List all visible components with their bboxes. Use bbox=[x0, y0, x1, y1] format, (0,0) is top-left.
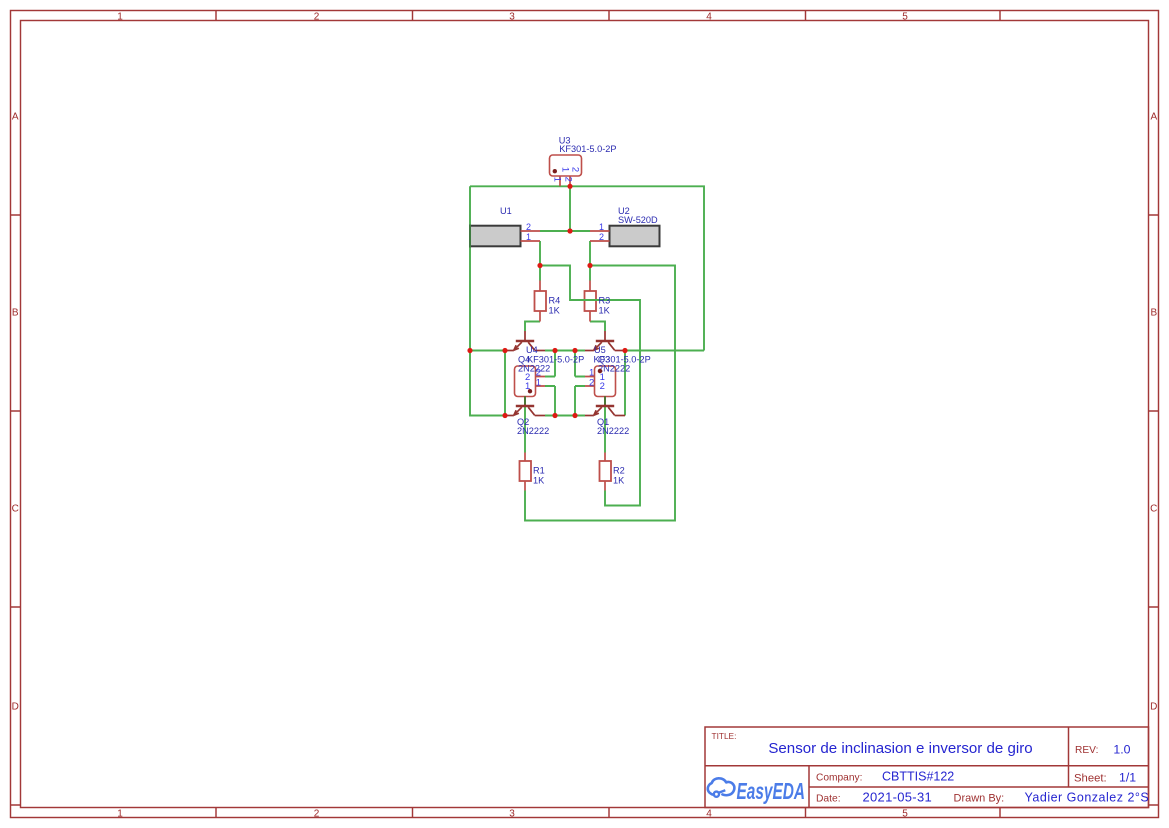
svg-text:2N2222: 2N2222 bbox=[518, 364, 550, 374]
label R3 value 1K bbox=[599, 305, 611, 315]
connector U2 SW-520D body bbox=[590, 226, 660, 247]
wire loop R3-node to R1 bottom bbox=[525, 266, 675, 521]
pin number 2 U3 (below box, rotated) bbox=[562, 177, 573, 182]
transistor Q2 bbox=[505, 396, 545, 416]
junction node at (505,415.5) Q2 emitter node bbox=[502, 413, 507, 418]
svg-text:REV:: REV: bbox=[1075, 745, 1098, 756]
svg-text:5: 5 bbox=[902, 809, 908, 820]
wire vertical Q4E-Q2E bbox=[504, 351, 506, 416]
label U3 bbox=[559, 136, 571, 146]
svg-text:2: 2 bbox=[526, 222, 531, 232]
wire overlap dark Q2 base lead bbox=[524, 396, 526, 404]
svg-text:Company:: Company: bbox=[816, 773, 862, 784]
wire node row U1-U2 bbox=[540, 230, 590, 232]
company value CBTTIS#122 bbox=[882, 770, 954, 784]
svg-text:TITLE:: TITLE: bbox=[712, 731, 737, 741]
wire crossing over R3 body bbox=[577, 299, 640, 301]
svg-text:2N2222: 2N2222 bbox=[517, 426, 549, 436]
svg-text:R2: R2 bbox=[613, 466, 625, 476]
svg-text:U4: U4 bbox=[526, 345, 538, 355]
svg-text:2: 2 bbox=[570, 167, 581, 172]
junction node at (540,265.5) R4 top node bbox=[537, 263, 542, 268]
ruler column numbers bottom bbox=[117, 809, 908, 820]
svg-text:4: 4 bbox=[706, 809, 712, 820]
title block frame bbox=[705, 727, 1149, 808]
ruler row letters left bbox=[12, 111, 19, 712]
svg-text:1: 1 bbox=[117, 809, 123, 820]
label Q3 bbox=[598, 355, 610, 365]
svg-text:R4: R4 bbox=[549, 296, 561, 306]
svg-text:SW-520D: SW-520D bbox=[618, 215, 658, 225]
pin name 1 U5 (in box) bbox=[600, 372, 605, 383]
label U2 bbox=[618, 206, 630, 216]
wire loop R4-node to R2 bottom bbox=[540, 266, 640, 506]
svg-text:KF301-5.0-2P: KF301-5.0-2P bbox=[559, 144, 616, 154]
svg-text:EasyEDA: EasyEDA bbox=[737, 778, 806, 804]
label R4 bbox=[549, 296, 561, 306]
pin name 2 U4 (in box) bbox=[525, 372, 530, 383]
label R1 bbox=[533, 466, 545, 476]
svg-text:A: A bbox=[12, 111, 19, 122]
resistor R3 bbox=[585, 281, 597, 322]
pin number 1 U4 bbox=[536, 378, 541, 389]
svg-text:Date:: Date: bbox=[816, 794, 841, 805]
pin number 1 U3 (below box, rotated) bbox=[551, 177, 562, 182]
label U1 bbox=[500, 206, 512, 216]
wire overlap dark Q1 base lead bbox=[604, 396, 606, 404]
title block label Company: bbox=[816, 773, 862, 784]
svg-text:1/1: 1/1 bbox=[1119, 771, 1136, 785]
wire vertical Q1 collector riser bbox=[624, 351, 626, 416]
svg-text:1: 1 bbox=[599, 222, 604, 232]
label Q4 value 2N2222 bbox=[518, 364, 550, 374]
sheet value 1/1 bbox=[1119, 771, 1136, 785]
resistor R2 bbox=[600, 453, 612, 491]
label U2 value SW-520D bbox=[618, 215, 658, 225]
svg-text:1: 1 bbox=[560, 167, 571, 172]
svg-text:Drawn By:: Drawn By: bbox=[954, 793, 1005, 805]
svg-text:C: C bbox=[1150, 503, 1157, 514]
connector U3 KF301-5.0-2P bbox=[550, 155, 582, 186]
sheet title text bbox=[768, 740, 1032, 757]
junction node at (555,350.5) U4 pin2 riser node bbox=[552, 348, 557, 353]
pin number 2 U4 bbox=[536, 368, 541, 379]
svg-text:4: 4 bbox=[706, 11, 712, 22]
junction node at (625,350.5) Q3 collector node bbox=[622, 348, 627, 353]
pin number 2 U5 bbox=[589, 378, 594, 389]
connector U5 KF301-5.0-2P bbox=[585, 366, 616, 397]
junction node at (505,350.5) Q4 emitter node bbox=[502, 348, 507, 353]
svg-text:R3: R3 bbox=[599, 296, 611, 306]
svg-text:2: 2 bbox=[314, 11, 320, 22]
junction node at (570,231) U1-U2 row / U3 drop bbox=[567, 228, 572, 233]
svg-text:2: 2 bbox=[600, 381, 605, 392]
connector U5 pin 1 marker dot bbox=[598, 369, 602, 373]
svg-text:2N2222: 2N2222 bbox=[598, 364, 630, 374]
junction node at (575,415.5) U5 pin2 node bbox=[572, 413, 577, 418]
wire R4 bottom jog to Q4 base bbox=[525, 322, 540, 332]
label Q4 bbox=[518, 355, 530, 365]
wire U3 pin2 drop bbox=[569, 186, 571, 231]
transistor Q3 bbox=[585, 331, 625, 351]
svg-text:1K: 1K bbox=[613, 475, 625, 485]
label R2 bbox=[613, 466, 625, 476]
label U3 value KF301-5.0-2P bbox=[559, 144, 616, 154]
transistor Q1 bbox=[585, 396, 625, 416]
junction node at (570,186.3) U3 pin2 / top rail bbox=[567, 184, 572, 189]
wire U1 pin1 drop bbox=[539, 241, 541, 266]
wire vertical U5 pin2 dropper bbox=[575, 386, 585, 416]
wire Q1 base to R2 bbox=[604, 397, 606, 453]
svg-text:1.0: 1.0 bbox=[1113, 743, 1130, 757]
svg-text:5: 5 bbox=[902, 11, 908, 22]
EasyEDA logo cloud bbox=[708, 778, 735, 795]
ruler column numbers top bbox=[117, 11, 908, 22]
label Q2 value 2N2222 bbox=[517, 426, 549, 436]
wire Q2 base to R1 bbox=[524, 397, 526, 453]
label U5 value KF301-5.0-2P bbox=[594, 355, 651, 365]
title block label Date: bbox=[816, 794, 841, 805]
date value 2021-05-31 bbox=[863, 790, 933, 805]
pin name 2 U5 (in box) bbox=[600, 381, 605, 392]
label U5 bbox=[594, 345, 606, 355]
wire collector row segments bbox=[470, 350, 704, 352]
label Q1 value 2N2222 bbox=[597, 426, 629, 436]
svg-text:1K: 1K bbox=[599, 305, 611, 315]
svg-text:2N2222: 2N2222 bbox=[597, 426, 629, 436]
svg-text:R1: R1 bbox=[533, 466, 545, 476]
label Q3 value 2N2222 bbox=[598, 364, 630, 374]
wire top rail bbox=[470, 186, 704, 350]
label R2 value 1K bbox=[613, 475, 625, 485]
title block label REV: bbox=[1075, 745, 1098, 756]
svg-text:2: 2 bbox=[562, 177, 573, 182]
svg-text:B: B bbox=[12, 307, 19, 318]
svg-text:2: 2 bbox=[314, 809, 320, 820]
connector U1 (tilt sensor) body bbox=[470, 226, 540, 247]
svg-text:1K: 1K bbox=[533, 475, 545, 485]
wire R4 top bbox=[539, 266, 541, 281]
label R4 value 1K bbox=[549, 305, 561, 315]
pin numbers U2 bbox=[599, 222, 604, 242]
resistor R1 bbox=[520, 453, 532, 491]
drawn by value Yadier Gonzalez 2°S bbox=[1025, 791, 1150, 805]
wire R3 top bbox=[589, 266, 591, 281]
svg-text:U5: U5 bbox=[594, 345, 606, 355]
svg-text:2: 2 bbox=[589, 378, 594, 389]
wire vertical U4 pin2 riser bbox=[545, 351, 555, 377]
svg-text:1: 1 bbox=[117, 11, 123, 22]
label Q2 bbox=[517, 417, 529, 427]
svg-text:A: A bbox=[1150, 111, 1157, 122]
svg-text:1: 1 bbox=[525, 381, 530, 392]
EasyEDA logo text bbox=[737, 778, 806, 804]
svg-text:C: C bbox=[12, 503, 19, 514]
junction node at (590,265.5) R3 top node bbox=[587, 263, 592, 268]
label U4 bbox=[526, 345, 538, 355]
revision value 1.0 bbox=[1113, 743, 1130, 757]
junction node at (470,350.5) left rail / collector row bbox=[467, 348, 472, 353]
pin name 2 U3 (in box, rotated) bbox=[570, 167, 581, 172]
svg-text:2: 2 bbox=[599, 232, 604, 242]
junction node at (555,415.5) U4 pin1 node bbox=[552, 413, 557, 418]
wire overlap dark U1 left edge bbox=[469, 225, 471, 248]
svg-text:3: 3 bbox=[509, 11, 515, 22]
pin name 1 U4 (in box) bbox=[525, 381, 530, 392]
title block label TITLE: bbox=[712, 731, 737, 741]
ruler row letters right bbox=[1150, 111, 1157, 712]
svg-text:1: 1 bbox=[536, 378, 541, 389]
wire U2 pin2 drop bbox=[589, 241, 591, 266]
svg-text:1K: 1K bbox=[549, 305, 561, 315]
wire vertical U5 pin1 riser bbox=[575, 351, 585, 377]
label R3 bbox=[599, 296, 611, 306]
svg-text:B: B bbox=[1150, 307, 1157, 318]
label Q1 bbox=[597, 417, 609, 427]
svg-text:Yadier Gonzalez 2°S: Yadier Gonzalez 2°S bbox=[1025, 791, 1150, 805]
wire emitter row segments bbox=[470, 415, 585, 417]
title block label Drawn By: bbox=[954, 793, 1005, 805]
wire vertical U4 pin1 dropper bbox=[545, 386, 555, 416]
svg-text:Sensor de inclinasion e invers: Sensor de inclinasion e inversor de giro bbox=[768, 740, 1032, 757]
pin number 1 U5 bbox=[589, 368, 594, 379]
svg-text:D: D bbox=[12, 701, 19, 712]
svg-text:Sheet:: Sheet: bbox=[1074, 773, 1107, 785]
pin numbers U1 bbox=[526, 222, 531, 242]
svg-text:D: D bbox=[1150, 701, 1157, 712]
label R1 value 1K bbox=[533, 475, 545, 485]
wire left rail bbox=[470, 186, 505, 415]
junction node at (575,350.5) U5 pin1 riser node bbox=[572, 348, 577, 353]
svg-text:U1: U1 bbox=[500, 206, 512, 216]
svg-text:1: 1 bbox=[526, 232, 531, 242]
connector U4 KF301-5.0-2P bbox=[515, 366, 546, 397]
resistor R4 bbox=[535, 281, 547, 322]
pin name 1 U3 (in box, rotated) bbox=[560, 167, 571, 172]
svg-text:CBTTIS#122: CBTTIS#122 bbox=[882, 770, 954, 784]
svg-text:2021-05-31: 2021-05-31 bbox=[863, 790, 933, 805]
transistor Q4 bbox=[505, 331, 545, 351]
EasyEDA logo node circle bbox=[714, 790, 725, 797]
wire R3 bottom jog to Q3 base bbox=[590, 322, 605, 332]
label U4 value KF301-5.0-2P bbox=[527, 355, 584, 365]
svg-text:3: 3 bbox=[509, 809, 515, 820]
svg-text:1: 1 bbox=[551, 177, 562, 182]
title block label Sheet: bbox=[1074, 773, 1107, 785]
